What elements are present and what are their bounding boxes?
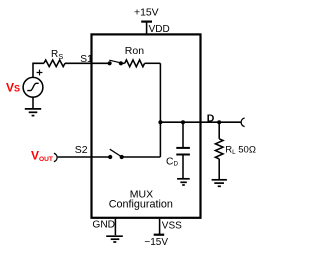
switch S2 right contact (120, 155, 124, 159)
wire VS to ground (32, 97, 34, 108)
wire vertical bus (159, 63, 161, 157)
svg-text:Configuration: Configuration (109, 199, 173, 211)
VSS supply bar (154, 234, 165, 236)
switch S1 blade (109, 60, 120, 63)
svg-text:VDD: VDD (149, 24, 170, 35)
ground below CD (177, 179, 190, 185)
svg-text:−15V: −15V (144, 237, 168, 248)
wire VOUT to S2 (58, 156, 110, 158)
MUX box outline (92, 34, 201, 217)
resistor Ron (125, 60, 145, 67)
svg-text:S2: S2 (75, 144, 88, 156)
ground below RL (212, 180, 227, 187)
wire Rs to S1 (65, 62, 110, 64)
switch S2 blade (110, 149, 122, 156)
connector arc D (241, 118, 244, 127)
svg-text:+15V: +15V (134, 7, 159, 18)
ground below VS (25, 109, 41, 116)
resistor RL (215, 139, 223, 159)
wire S2 to vertical bus (122, 156, 161, 158)
capacitor CD bottom plate (176, 154, 190, 156)
svg-text:Ron: Ron (125, 45, 144, 57)
wire node to CD (182, 122, 184, 147)
capacitor CD top plate (176, 147, 190, 149)
svg-text:D: D (207, 112, 215, 124)
svg-text:RL 50Ω: RL 50Ω (225, 145, 256, 157)
svg-text:VOUT: VOUT (31, 148, 53, 163)
switch S1 left contact (108, 61, 112, 65)
VSS pin wire (159, 219, 161, 234)
wire CD to ground (182, 156, 184, 179)
source VS circle (23, 77, 43, 97)
connector arc VOUT (54, 153, 57, 161)
ground below GND pin (106, 236, 123, 242)
svg-text:S1: S1 (80, 54, 93, 65)
plus polarity sign (37, 70, 43, 76)
svg-text:VSS: VSS (162, 221, 182, 232)
switch S2 left contact (108, 155, 112, 159)
wire node to RL (218, 122, 220, 139)
wire output node row (160, 121, 240, 123)
junction dot bus/node (158, 120, 162, 124)
VS step waveform (27, 83, 38, 90)
VDD stem wire (146, 22, 148, 34)
wire VS to Rs (33, 63, 44, 77)
svg-text:RS: RS (51, 49, 63, 61)
svg-text:VS: VS (6, 81, 20, 95)
VDD supply bar (141, 21, 152, 23)
wire RL to ground (218, 159, 220, 179)
wire Ron to vertical bus (145, 62, 161, 64)
svg-text:CD: CD (166, 157, 178, 168)
resistor RS (44, 60, 65, 67)
wire S1 to Ron (121, 62, 125, 64)
junction dot RL (217, 120, 221, 124)
GND pin wire (114, 219, 116, 235)
junction dot CD (181, 120, 185, 124)
svg-text:GND: GND (92, 220, 115, 231)
switch S1 right contact (119, 61, 123, 65)
